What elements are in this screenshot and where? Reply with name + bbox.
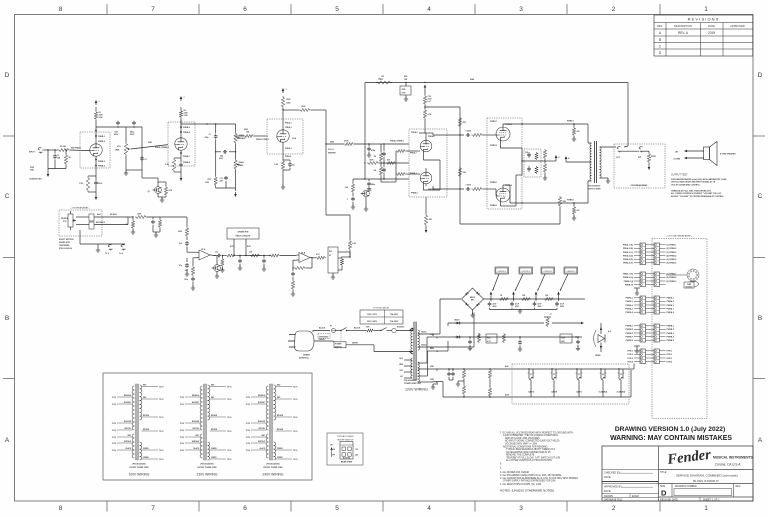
svg-text:TO P#: TO P# (227, 417, 231, 419)
svg-text:SPARE PIN: SPARE PIN (238, 231, 249, 234)
bridge rectifier BR1 (462, 288, 484, 310)
svg-text:TO P#: TO P# (112, 430, 116, 432)
svg-text:TO P#: TO P# (159, 431, 163, 433)
heater label V3 (576, 374, 583, 394)
feedback network U2B (293, 257, 313, 270)
resistor R30 grid stopper lower (472, 187, 488, 190)
ground volume (124, 170, 128, 175)
transformer 100V wiring diagram (112, 384, 164, 477)
svg-text:TO P#: TO P# (246, 430, 250, 432)
reverb pot breakaway box (59, 207, 102, 236)
wire V1A plate to coupling (96, 126, 142, 128)
transformer T2 output primary (590, 143, 592, 181)
svg-text:TYPICAL POWER: TYPICAL POWER (336, 435, 354, 438)
wire tone out (236, 135, 245, 137)
tube V2B PI triode upper (420, 140, 432, 152)
svg-text:TWEEDLE AT FULL GIRL THAT DRIV: TWEEDLE AT FULL GIRL THAT DRIVEN OUT, (671, 190, 712, 193)
capacitor C22 series (215, 252, 221, 258)
net PWRB plate label (567, 200, 574, 202)
footswitch jack J4 (105, 244, 113, 255)
wire U2B out (312, 257, 316, 259)
tube V2C PI triode lower (420, 172, 432, 184)
varistor box RV1 (486, 334, 497, 343)
svg-text:684: 684 (220, 154, 223, 157)
U2A feedback resistor R60 (185, 258, 197, 276)
wire to reverb mix (341, 250, 350, 257)
ground bridge (470, 313, 474, 317)
svg-text:120: 120 (355, 449, 358, 451)
transistor Q1 fat switch (148, 187, 162, 194)
transformer T1 label (404, 379, 422, 385)
svg-text:GREEN: GREEN (277, 457, 283, 459)
tube heaters dashed box (512, 364, 629, 404)
svg-text:TO P#: TO P# (112, 404, 116, 406)
svg-text:SERVICE DIAGRAM, COMBINED (sch: SERVICE DIAGRAM, COMBINED (schematic) (676, 474, 738, 478)
svg-text:PREB-8 (H): PREB-8 (H) (623, 277, 633, 279)
svg-text:PREB-8: PREB-8 (183, 162, 190, 164)
wire relay to mix (338, 252, 351, 258)
wire V1B cathode (174, 150, 182, 176)
svg-text:DATE: DATE (708, 24, 715, 28)
svg-text:APPROVED: APPROVED (730, 24, 745, 28)
svg-text:TO P#: TO P# (246, 450, 250, 452)
heater label V2 (551, 374, 558, 394)
svg-text:ALL OTHER CONTROLS AT 50% ROTA: ALL OTHER CONTROLS AT 50% ROTATION. (506, 459, 553, 462)
heater filament V1 (528, 368, 535, 397)
svg-text:PREB-9 (I): PREB-9 (I) (624, 281, 634, 283)
resistor R23 PI grid lower (396, 151, 420, 176)
transformer T2 secondary (600, 147, 602, 178)
wire bias row (448, 322, 584, 326)
wire B+ rail node A (365, 82, 628, 144)
svg-text:F2: F2 (436, 338, 438, 340)
svg-text:ACCELERATED (AND CONNECTED) AT: ACCELERATED (AND CONNECTED) AT 25 (506, 451, 551, 454)
wire input to grid network (43, 149, 59, 150)
capacitor C12 (382, 144, 386, 163)
svg-text:HTR-3: HTR-3 (667, 358, 673, 360)
wire bright cap branch (141, 127, 143, 170)
FX network caps (147, 217, 167, 234)
warning note (610, 435, 732, 442)
svg-text:WHT: WHT (127, 435, 131, 437)
V1B pin labels (183, 127, 190, 164)
svg-text:WHITE: WHITE (352, 343, 359, 345)
svg-text:PREA-1: PREA-1 (285, 122, 292, 125)
resistor R40 series (135, 214, 147, 219)
svg-text:OUTPUT TEST:: OUTPUT TEST: (671, 174, 688, 177)
svg-text:TO P#: TO P# (293, 386, 297, 388)
svg-text:A: A (5, 437, 10, 444)
svg-text:PREA-7: PREA-7 (410, 152, 417, 155)
resistor R46 fb (291, 280, 294, 293)
svg-text:ALL OTHER CONTROLS DOWNST, "VO: ALL OTHER CONTROLS DOWNST, "VOLUME" FULL… (671, 192, 722, 195)
svg-text:8 OHM SPEAKER: 8 OHM SPEAKER (720, 153, 736, 156)
svg-text:PREA-2: PREA-2 (285, 147, 292, 150)
wire down to opamp (187, 247, 197, 253)
power switch detail box (327, 433, 363, 465)
svg-text:PREA-5 PREB-5: PREA-5 PREB-5 (390, 140, 404, 143)
svg-text:GREEN: GREEN (143, 448, 149, 450)
svg-text:ADJUST "VOLUME" TO PROPER READ: ADJUST "VOLUME" TO PROPER READINGS AT CO… (671, 195, 725, 198)
wire bass leg (235, 124, 237, 132)
svg-text:5: 5 (335, 6, 339, 13)
heater label V5 (617, 374, 626, 394)
svg-text:L=3: L=3 (428, 101, 431, 103)
svg-text:TO P#: TO P# (112, 423, 116, 425)
ground C21 (185, 272, 189, 276)
spare pcb box (227, 228, 259, 239)
switch link dashed (340, 332, 342, 342)
wire cathode join (521, 148, 545, 175)
connector group CN2 (623, 243, 677, 265)
svg-text:100K: 100K (369, 160, 374, 162)
svg-text:PWRA-3: PWRA-3 (667, 304, 674, 307)
svg-text:PWRB-3: PWRB-3 (626, 333, 633, 335)
filter cap label C33 (560, 303, 565, 309)
resistor R13 cathode V2A (274, 160, 284, 170)
pot breakaway note (59, 238, 74, 250)
resistor R14 coupling (283, 106, 311, 112)
PI pin labels (410, 131, 435, 195)
ground relay (331, 273, 335, 279)
wire mid row (379, 162, 409, 163)
wire PI out lower (426, 184, 464, 189)
LED pcb box (560, 334, 572, 343)
resistor R31 NFB (558, 196, 566, 207)
wire V3 cathode (500, 141, 522, 148)
svg-text:HTR-4: HTR-4 (627, 360, 634, 363)
wire V2A cathode lower (282, 170, 284, 186)
svg-text:PREB-8: PREB-8 (183, 132, 190, 134)
svg-text:TO P#: TO P# (112, 397, 116, 399)
svg-text:340Vac: 340Vac (421, 331, 427, 334)
wire bridge output (484, 298, 586, 299)
svg-text:PREA-6 (F): PREA-6 (F) (623, 262, 633, 265)
svg-text:C18: C18 (525, 152, 528, 154)
resistor R7 100K plate (179, 107, 188, 120)
svg-text:P/N 041245000: P/N 041245000 (404, 379, 417, 382)
resistor R56 humdinger (462, 369, 465, 381)
svg-text:TO P#: TO P# (159, 417, 163, 419)
resistor R20 supply dropper (423, 90, 432, 106)
svg-text:1/2W: 1/2W (286, 103, 291, 105)
svg-text:OUT AT GUITAR AND CONTROL: OUT AT GUITAR AND CONTROL (671, 183, 701, 186)
snubber box on rail (400, 83, 411, 99)
svg-text:TO P#: TO P# (112, 450, 116, 452)
capacitor C25 fb (291, 267, 295, 280)
resistor R35 cathode (543, 161, 547, 180)
svg-text:TO P#: TO P# (246, 397, 250, 399)
B+ feed arrow (424, 85, 427, 90)
net GRN F4 label (430, 348, 438, 353)
svg-text:DATE:: DATE: (604, 490, 611, 493)
heater filament V5 (618, 368, 625, 397)
capacitor C18 snubber (525, 152, 531, 158)
fuse table (360, 307, 403, 325)
heater label V4 (599, 373, 608, 394)
svg-text:APPROVED BY:: APPROVED BY: (604, 486, 623, 489)
svg-text:REV.: REV. (736, 486, 742, 488)
svg-text:240V WIRING: 240V WIRING (263, 473, 284, 477)
wire volume bottom (126, 156, 142, 170)
svg-text:MB2S1: MB2S1 (470, 297, 475, 299)
capacitor C12 22N (220, 176, 228, 188)
svg-text:470: 470 (577, 209, 580, 212)
svg-text:"REVERB" AT FULL SLOW, "LAT" S: "REVERB" AT FULL SLOW, "LAT" SWITCH OUT … (506, 456, 560, 459)
connector group CN6 (627, 349, 673, 363)
svg-text:(7) PREB-7: (7) PREB-7 (667, 274, 677, 276)
wire tone mid link (215, 151, 236, 152)
svg-text:V1: V1 (530, 374, 532, 376)
heater filament V3 (576, 368, 583, 397)
svg-text:BRN/BLK: BRN/BLK (124, 395, 132, 397)
svg-text:WHT/BLK: WHT/BLK (258, 441, 266, 443)
svg-text:PWRB-9: PWRB-9 (626, 340, 633, 342)
footswitch wire (80, 230, 125, 244)
transformer T1 heater secondary (418, 337, 438, 382)
svg-text:PREA-2 (B): PREA-2 (B) (623, 247, 633, 250)
B+ node preamp 3 (282, 88, 288, 93)
switch SW1b (374, 328, 391, 332)
svg-text:DRAWING NUMBER: DRAWING NUMBER (675, 485, 697, 488)
svg-text:3: 3 (519, 505, 523, 512)
svg-text:BLU/WHT: BLU/WHT (192, 402, 199, 404)
op-amp U2B (297, 253, 313, 263)
svg-text:TO P#: TO P# (246, 443, 250, 445)
speaker label OR (674, 152, 681, 161)
wire to PI input A (354, 143, 409, 144)
svg-text:MA6: MA6 (470, 78, 474, 81)
connector group CN5 (626, 324, 674, 342)
resistor R43 series (226, 254, 244, 257)
switch SW1a (336, 328, 353, 332)
capacitor C13 (382, 163, 386, 179)
svg-text:+318VDC: +318VDC (543, 271, 553, 273)
svg-text:.1 400V: .1 400V (465, 130, 472, 133)
svg-text:TO P#: TO P# (293, 431, 297, 433)
wire HT route B (436, 313, 474, 348)
svg-text:POWER XFMR 120V: POWER XFMR 120V (404, 383, 422, 385)
net GRN F2 label (430, 334, 438, 340)
wire to fat FET (142, 170, 158, 187)
svg-text:REV.: REV. (657, 24, 663, 28)
svg-text:MASTER: MASTER (328, 152, 336, 155)
svg-text:WHT/BLK: WHT/BLK (124, 441, 132, 443)
svg-text:470: 470 (577, 130, 580, 133)
power tubes breakaway box (487, 118, 522, 209)
svg-text:PWRB-1: PWRB-1 (626, 326, 633, 328)
svg-text:P/N 037246000: P/N 037246000 (588, 185, 601, 188)
svg-text:1: 1 (704, 6, 708, 13)
wire chain mid (244, 255, 262, 257)
ground V2A cathode (281, 185, 285, 189)
svg-text:ANT/SW B: ANT/SW B (96, 221, 106, 224)
resistor R44 series 2 (249, 252, 260, 258)
wire stage3 out vertical (311, 110, 350, 240)
svg-text:4: 4 (427, 505, 431, 512)
svg-text:R1 68K: R1 68K (60, 146, 67, 148)
bass pot VR3 (234, 159, 245, 170)
svg-text:PWRB-9: PWRB-9 (667, 340, 674, 342)
wire V2A plate (282, 108, 283, 130)
svg-text:PWRA-9: PWRA-9 (505, 123, 512, 126)
wire PI out upper (433, 133, 464, 135)
capacitor C37 (576, 336, 580, 350)
svg-text:4.7K: 4.7K (428, 113, 433, 116)
wire V2A cathode (283, 142, 291, 160)
svg-text:REV. A: REV. A (678, 31, 689, 35)
ground tone stack (234, 188, 237, 197)
capacitor C36 (518, 337, 522, 351)
op-amp U2A (197, 248, 213, 260)
svg-text:1/2W: 1/2W (184, 115, 188, 117)
resistor R33 (535, 166, 538, 174)
tube V2A 12AX7 triode (277, 130, 289, 142)
resistor R21 supply dropper 2 (423, 105, 432, 119)
svg-text:PREA-3 (C): PREA-3 (C) (623, 251, 633, 254)
capacitor C38 heater (447, 369, 453, 380)
svg-text:NO INPUT SIGNAL CONNECTED (LIN: NO INPUT SIGNAL CONNECTED (LINE VOLT HEL… (505, 440, 560, 443)
svg-text:ON/OFF SWITCH: ON/OFF SWITCH (337, 440, 354, 442)
B+ screen arrow (545, 155, 560, 161)
svg-text:BOTTOM: BOTTOM (343, 457, 351, 459)
svg-text:100V~120V: 100V~120V (367, 314, 378, 316)
resistor R1 1M shunt (64, 149, 71, 168)
wire mains black (313, 327, 330, 333)
resistor R50 dropper (499, 295, 509, 301)
svg-text:PWRA-1: PWRA-1 (626, 297, 633, 300)
svg-text:PWRB-2: PWRB-2 (626, 329, 633, 331)
svg-text:7: 7 (151, 505, 155, 512)
svg-text:PWRA-1: PWRA-1 (667, 297, 674, 300)
svg-text:TO P#: TO P# (180, 450, 184, 452)
svg-text:GREEN: GREEN (211, 457, 217, 459)
wire primary bottom (409, 352, 413, 355)
diode D2 (454, 319, 461, 325)
wire jacks link (622, 150, 640, 152)
svg-text:7: 7 (151, 6, 155, 13)
svg-text:250KA: 250KA (239, 161, 245, 164)
capacitor C24 shunt 2 (262, 255, 266, 271)
svg-text:PWRA-3: PWRA-3 (626, 304, 633, 307)
svg-text:BRN/BLK: BRN/BLK (258, 395, 266, 397)
wire heater rails to CN6 (627, 364, 634, 398)
svg-text:HTR-1: HTR-1 (667, 351, 673, 353)
test point leader TP2 (515, 274, 523, 291)
svg-text:BLU/GRN: BLU/GRN (192, 421, 200, 423)
svg-text:10u: 10u (215, 252, 218, 254)
U2A feedback capacitor C26 (184, 276, 195, 281)
svg-text:BLU/WHT: BLU/WHT (258, 402, 265, 404)
transformer 240V wiring diagram (246, 384, 298, 477)
capacitor C3 coupling (114, 121, 120, 137)
svg-text:READING THE COMPLETE: READING THE COMPLETE (506, 454, 535, 457)
svg-text:MUSICAL INSTRUMENTS: MUSICAL INSTRUMENTS (713, 456, 753, 460)
resistor R8 cathode V1B (165, 158, 176, 172)
svg-text:(GRN/YEL): (GRN/YEL) (299, 358, 309, 360)
wire tone bottom link (216, 186, 236, 188)
svg-text:R18: R18 (208, 179, 211, 181)
resistor R25 PI bias 2 (374, 162, 383, 176)
svg-text:100: 100 (381, 76, 384, 78)
svg-text:--ON BREAKAWAY--: --ON BREAKAWAY-- (70, 207, 89, 210)
LED D1 jewel (594, 323, 611, 357)
svg-text:V5: V5 (620, 374, 622, 376)
svg-text:GREEN: GREEN (277, 448, 283, 450)
svg-text:OTHER SUPPLY RATINGS EXPRESSED: OTHER SUPPLY RATINGS EXPRESSED FOR 20% (503, 480, 556, 483)
svg-text:SOCKET: SOCKET (685, 287, 693, 289)
svg-text:TO P#: TO P# (112, 443, 116, 445)
svg-text:8: 8 (59, 505, 63, 512)
svg-text:PREB-6: PREB-6 (411, 193, 418, 195)
svg-text:FOR DEMONSTRATED (tube) INTO A: FOR DEMONSTRATED (tube) INTO AN 8 LABORA… (671, 178, 727, 181)
svg-text:BLACK: BLACK (354, 327, 361, 330)
wire NFB (460, 207, 560, 224)
transformer T1 core (414, 322, 417, 380)
tube V1B 12AX7 triode (175, 138, 187, 150)
wire spare stub 1 (230, 239, 235, 256)
svg-text:TO P#: TO P# (159, 386, 163, 388)
svg-text:+308VDC: +308VDC (566, 271, 576, 273)
svg-text:PREB-3: PREB-3 (98, 141, 105, 143)
connector group CN3 (623, 272, 676, 286)
ground snubber (404, 97, 408, 101)
svg-text:PT FUSE VALUE: PT FUSE VALUE (373, 307, 390, 310)
B+ node preamp 2 (180, 96, 186, 101)
svg-text:100K: 100K (301, 106, 306, 108)
svg-text:BLU/GRN: BLU/GRN (258, 421, 266, 423)
relay box K1 (328, 247, 338, 273)
svg-text:TO P#: TO P# (180, 423, 184, 425)
svg-text:R E V I S I O N S: R E V I S I O N S (688, 17, 719, 22)
connector CN1 pot (76, 214, 94, 229)
tube socket drawing (666, 269, 699, 289)
V1A pin labels (98, 136, 105, 168)
svg-text:--ON BREAKAWAY--: --ON BREAKAWAY-- (630, 184, 649, 187)
wire V1A cathode (88, 156, 97, 195)
svg-text:1/2W: 1/2W (99, 117, 103, 119)
svg-text:PREB-7 (G): PREB-7 (G) (623, 274, 634, 276)
svg-text:TO P#: TO P# (159, 399, 163, 401)
wire heater bottom rail (430, 379, 627, 398)
wire HT route A (438, 299, 461, 334)
svg-text:NOTES: (UNLESS OTHERWISE NOTED: NOTES: (UNLESS OTHERWISE NOTED) (500, 489, 554, 493)
capacitor C4 bright (130, 121, 136, 137)
svg-text:F1: F1 (436, 370, 438, 372)
capacitor C5 (140, 156, 146, 161)
svg-text:TO P#: TO P# (227, 399, 231, 401)
svg-text:HTR-2: HTR-2 (627, 354, 633, 356)
diode D3 (455, 336, 462, 339)
svg-text:3: 3 (519, 6, 523, 13)
svg-text:BROWN: BROWN (277, 429, 284, 431)
svg-text:DATE:: DATE: (604, 476, 611, 479)
resistor R39 1M (126, 216, 135, 231)
capacitor C11 470p (367, 144, 376, 157)
V4 pin labels (490, 182, 512, 207)
wire OT primary bottom (588, 181, 592, 203)
svg-text:REAR VIEW: REAR VIEW (341, 461, 352, 464)
svg-text:PWRB-1: PWRB-1 (667, 326, 674, 328)
resistor R12 plate V2A (281, 96, 291, 108)
capacitor C14 tone link (219, 150, 227, 160)
U2A feedback ground (191, 282, 195, 290)
svg-text:TO P#: TO P# (293, 450, 297, 452)
svg-text:INPUT: INPUT (29, 152, 36, 154)
svg-text:1.5K: 1.5K (79, 183, 84, 185)
svg-text:POWER: POWER (335, 344, 342, 346)
svg-text:1.5K: 1.5K (352, 243, 357, 245)
